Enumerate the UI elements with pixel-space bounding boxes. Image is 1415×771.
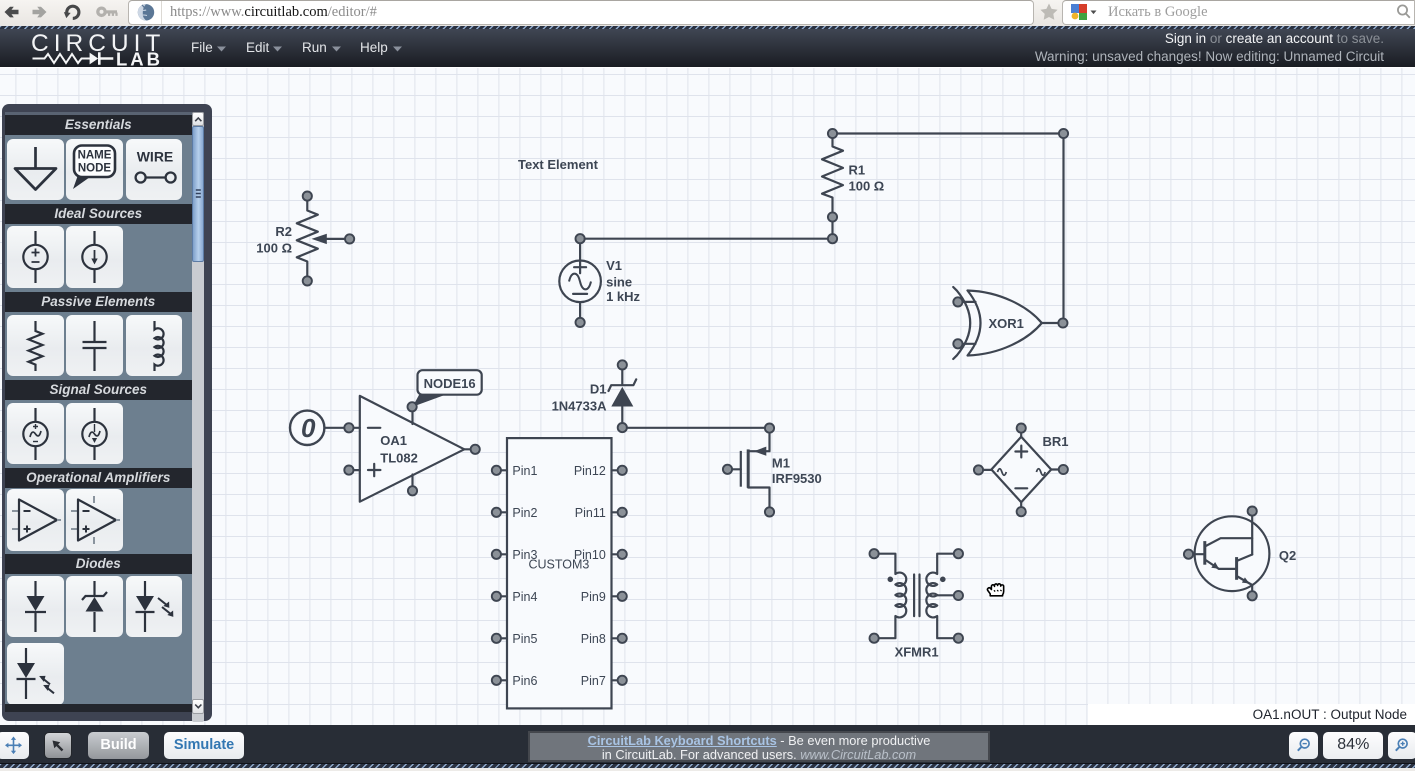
forward arrow [33,7,47,18]
LED icon [135,581,154,632]
svg-text:D1: D1 [590,381,607,396]
diode icon [25,581,46,632]
globe icon [138,4,154,20]
zoom in button [1388,732,1415,759]
pin 1 [492,465,501,474]
svg-text:Pin1: Pin1 [512,463,537,477]
wire V1 top to R1 bottom junction [585,237,833,239]
select tool button (active) [44,732,72,759]
pin 9 [618,591,627,600]
promo banner [528,731,990,763]
voltage source icon [34,231,36,283]
svg-text:NAME: NAME [77,149,111,161]
custom IC CUSTOM3 [492,438,627,708]
svg-text:Pin12: Pin12 [574,463,606,477]
Build button [88,732,149,759]
ground tool icon [15,147,56,190]
svg-text:BR1: BR1 [1043,434,1069,449]
status: OA1.nOUT output node readout [1088,704,1415,726]
p-MOSFET M1 IRF9530 [723,423,822,516]
zener diode icon [93,581,95,632]
ohmmeter probe (0) [290,410,344,444]
zoom out button [1289,732,1317,759]
svg-text:Text Element: Text Element [518,156,599,171]
wire R1 top to XOR1 output corner [837,133,1063,318]
sine current source icon [93,408,95,460]
svg-text:NODE: NODE [78,162,112,174]
svg-text:100 Ω: 100 Ω [256,240,292,255]
svg-text:Pin2: Pin2 [512,505,537,519]
pin 3 [492,549,501,558]
pin 2 [492,507,501,516]
svg-text:M1: M1 [772,455,790,470]
inductor icon [154,321,163,371]
node flag NODE16 [408,370,482,411]
R1 top terminal [828,128,837,137]
search magnifier [1393,0,1415,26]
svg-text:1 kHz: 1 kHz [606,289,640,304]
pin 5 [492,633,501,642]
svg-text:Pin7: Pin7 [581,673,606,687]
pin 4 [492,591,501,600]
move tool button [0,732,29,759]
corner node [1059,128,1068,137]
zener diode D1 1N4733A [552,360,637,432]
op-amp icon [12,511,19,529]
svg-text:sine: sine [606,274,632,289]
URL field [128,0,1034,25]
palette sidebar [2,104,212,722]
svg-text:XOR1: XOR1 [989,316,1024,331]
svg-text:100 Ω: 100 Ω [849,178,885,193]
current source icon [93,231,95,283]
svg-text:WIRE: WIRE [136,148,173,164]
voltage source V1 (sine 1 kHz) [559,234,640,327]
XOR gate XOR1 [953,287,1067,359]
svg-text:1N4733A: 1N4733A [552,398,608,413]
pin 12 [618,465,627,474]
Simulate button [164,732,245,759]
reload icon [67,6,79,18]
darlington transistor Q2 [1184,506,1296,600]
transformer XFMR1 [870,549,964,659]
svg-text:Pin4: Pin4 [512,589,537,603]
op-amp OA1 TL082 [344,395,480,501]
photodiode icon [17,648,36,699]
svg-text:TL082: TL082 [380,450,418,465]
name node tool icon [73,175,90,189]
node junction under R1 [828,234,837,243]
svg-text:CUSTOM3: CUSTOM3 [528,557,589,571]
pin 6 [492,675,501,684]
pin 11 [618,507,627,516]
svg-text:V1: V1 [606,258,622,273]
svg-text:Q2: Q2 [1279,547,1296,562]
svg-text:Pin6: Pin6 [512,673,537,687]
svg-text:R2: R2 [275,224,292,239]
capacitor icon [82,321,106,371]
svg-text:IRF9530: IRF9530 [772,471,822,486]
bridge rectifier BR1 [974,423,1069,516]
resistor R1 100 Ω [822,133,884,221]
wire junction up to R1 [831,221,833,234]
resistor icon [29,321,43,371]
sine voltage source icon [34,408,36,460]
key icon [96,7,117,18]
op-amp with rails icon [71,496,94,544]
bookmark star [1037,0,1061,26]
mouse grab cursor [987,583,1003,595]
svg-text:OA1: OA1 [380,433,407,448]
svg-text:Pin11: Pin11 [575,505,606,519]
svg-text:Pin5: Pin5 [512,631,537,645]
svg-text:0: 0 [301,413,316,443]
svg-text:Pin8: Pin8 [581,631,606,645]
CircuitLab logo [0,29,200,68]
svg-text:NODE16: NODE16 [424,376,476,391]
pin 7 [618,675,627,684]
palette scrollbar [192,112,205,722]
potentiometer R2 [256,191,354,285]
svg-text:R1: R1 [849,162,866,177]
search field [1062,0,1415,25]
zoom percentage [1323,732,1383,759]
svg-text:Pin9: Pin9 [581,589,606,603]
svg-text:XFMR1: XFMR1 [895,644,939,659]
wire D1 to M1 drain [627,426,765,428]
pin 8 [618,633,627,642]
back arrow [5,7,19,18]
pin 10 [618,549,627,558]
google icon [1068,0,1098,26]
